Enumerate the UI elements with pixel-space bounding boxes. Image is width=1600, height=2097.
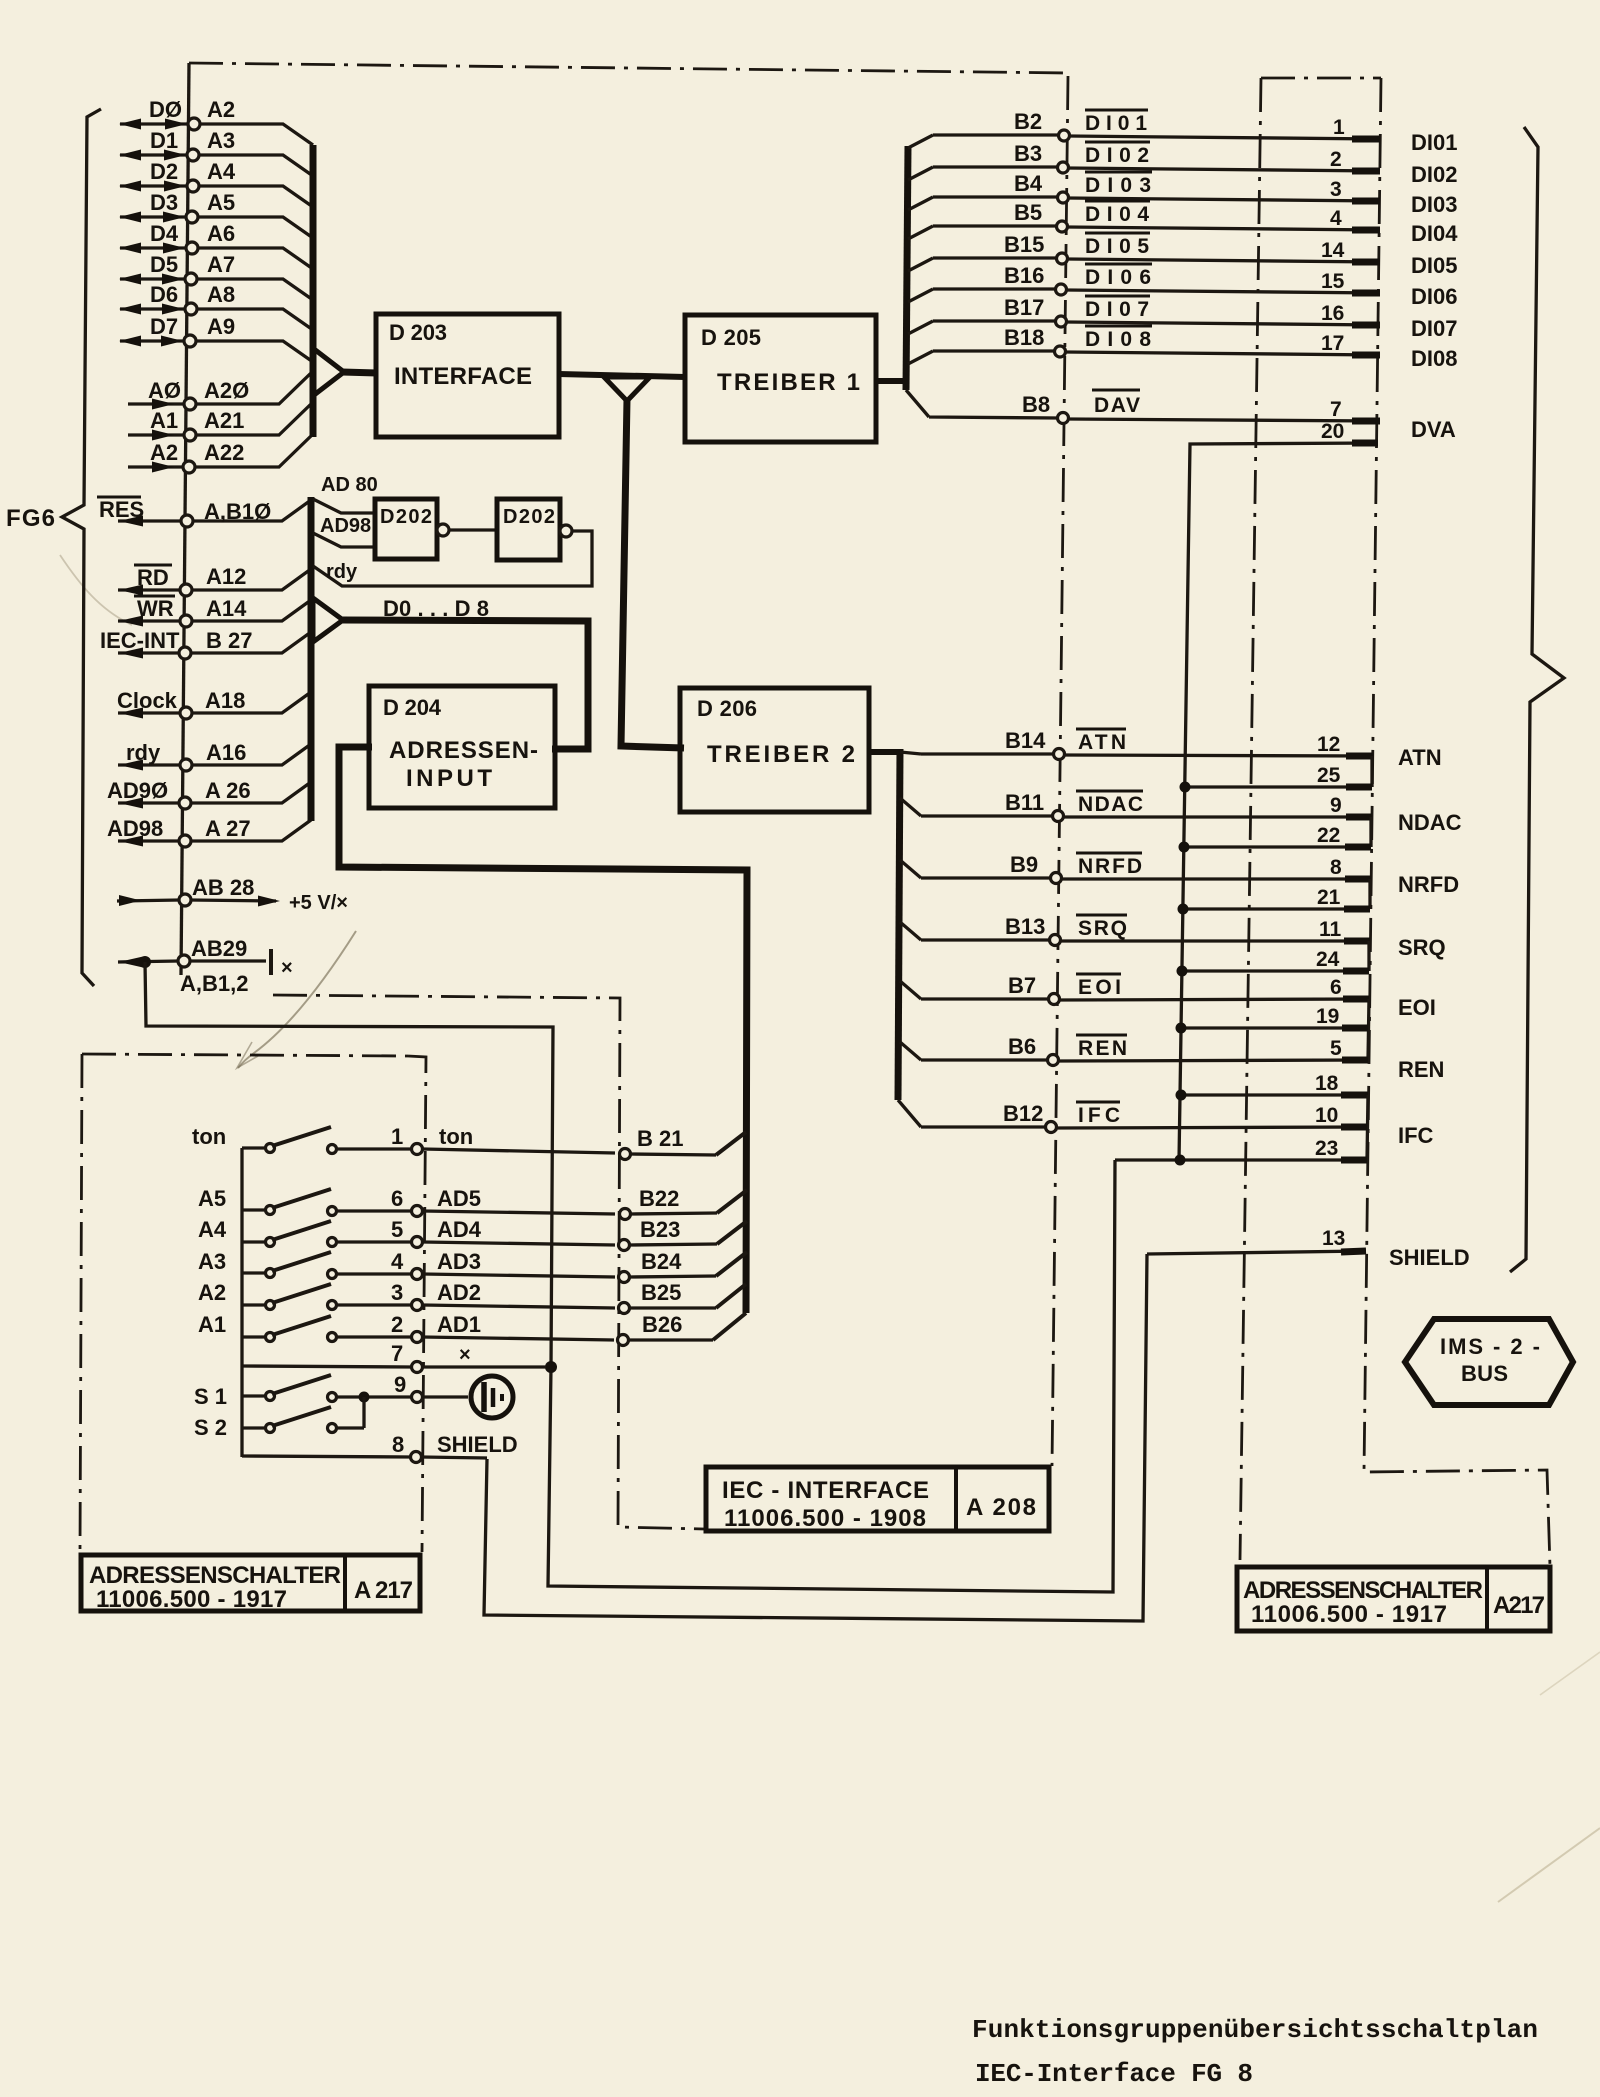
pin 11 stub <box>1344 938 1370 945</box>
switch S1 row <box>242 1396 468 1397</box>
connector IMS-2-BUS hexagon <box>1405 1319 1573 1405</box>
wire AB29 ground run <box>145 962 553 1367</box>
svg-text:B8: B8 <box>1022 392 1050 417</box>
pin B9 circle <box>1051 873 1062 884</box>
svg-text:DVA: DVA <box>1411 417 1456 442</box>
svg-text:S 1: S 1 <box>194 1384 227 1409</box>
boundary A208 top dash-dot line <box>189 63 1070 73</box>
svg-text:7: 7 <box>1330 398 1342 421</box>
wire AB29 row <box>118 961 266 962</box>
net IFC overbar <box>1076 1101 1120 1104</box>
pin 17 stub <box>1352 352 1380 359</box>
svg-text:IEC - INTERFACE: IEC - INTERFACE <box>722 1477 929 1504</box>
node RD overbar <box>134 564 172 567</box>
wire B23 row <box>629 1244 717 1245</box>
svg-text:TREIBER 2: TREIBER 2 <box>707 741 855 768</box>
switch A5 lever <box>272 1189 331 1208</box>
switch S1 lever <box>272 1375 331 1394</box>
arrow into interface <box>314 349 344 395</box>
pin B11 circle <box>1053 811 1064 822</box>
wire Clock row <box>118 692 311 713</box>
svg-text:A22: A22 <box>204 440 244 465</box>
bus data collector vertical <box>310 145 317 437</box>
pin 21 stub <box>1344 906 1370 913</box>
svg-text:25: 25 <box>1317 764 1341 787</box>
pin 22 stub <box>1345 844 1371 851</box>
svg-text:A,B1,2: A,B1,2 <box>180 971 248 996</box>
node WR overbar <box>134 595 175 598</box>
pin D4 circle A6 <box>186 242 198 254</box>
wire B4 DIO3 row <box>908 197 1380 210</box>
junction dot pin21 <box>1178 904 1189 915</box>
svg-text:11006.500 - 1908: 11006.500 - 1908 <box>724 1505 926 1532</box>
svg-text:A,B1Ø: A,B1Ø <box>204 499 271 524</box>
pin 12 stub <box>1346 753 1373 760</box>
bus D204 to switch block <box>339 747 747 1313</box>
wire B23 riser <box>717 1221 747 1244</box>
pin B4 circle <box>1058 192 1069 203</box>
svg-text:16: 16 <box>1321 302 1344 325</box>
svg-text:B2: B2 <box>1014 109 1042 134</box>
svg-text:A5: A5 <box>207 190 235 215</box>
svg-text:DI04: DI04 <box>1411 221 1458 246</box>
pin D5 arrows <box>119 274 184 285</box>
svg-text:D3: D3 <box>150 190 178 215</box>
pin B17 circle <box>1056 316 1067 327</box>
wire rdy feedback loop <box>313 531 592 586</box>
svg-text:×: × <box>459 1344 471 1366</box>
svg-text:AD1: AD1 <box>437 1312 481 1337</box>
svg-text:B13: B13 <box>1005 914 1045 939</box>
block D206 box <box>680 688 869 812</box>
pin 8 stub <box>1345 876 1371 883</box>
net REN overbar <box>1076 1034 1127 1037</box>
svg-text:D 203: D 203 <box>389 320 447 345</box>
net NDAC overbar <box>1076 790 1143 793</box>
pin AB28 circle <box>179 894 191 906</box>
svg-text:DI01: DI01 <box>1411 130 1457 155</box>
bus treiber2 collector <box>898 749 900 1100</box>
svg-text:SRQ: SRQ <box>1078 917 1127 940</box>
svg-text:B26: B26 <box>642 1312 682 1337</box>
pin 1 circle <box>412 1144 423 1155</box>
pin A2 arrow <box>152 462 174 473</box>
svg-text:B9: B9 <box>1010 852 1038 877</box>
pin D3 circle A5 <box>186 211 198 223</box>
svg-text:NDAC: NDAC <box>1398 810 1462 835</box>
svg-text:IFC: IFC <box>1398 1123 1434 1148</box>
switch A3 contacts <box>266 1269 275 1278</box>
wire D3 row <box>120 217 313 238</box>
pin D7 circle A9 <box>184 335 196 347</box>
pin D0 arrows <box>119 119 187 130</box>
wire B5 DIO4 row <box>908 226 1380 239</box>
junction dot x-row <box>545 1361 557 1373</box>
inverter D202 first box <box>375 499 437 559</box>
svg-text:AØ: AØ <box>148 378 181 403</box>
wire AD98 stub <box>313 533 376 547</box>
svg-text:B 27: B 27 <box>206 628 252 653</box>
svg-text:13: 13 <box>1322 1227 1345 1250</box>
switch ton lever <box>272 1127 331 1146</box>
wire pin8 SHIELD row <box>242 1456 487 1458</box>
boundary adressenschalter dash-dot left edge <box>80 1054 82 1551</box>
svg-text:NRFD: NRFD <box>1078 855 1142 878</box>
svg-text:DI05: DI05 <box>1411 253 1457 278</box>
svg-text:11006.500 - 1917: 11006.500 - 1917 <box>96 1586 287 1613</box>
wire pin9-22 stub vertical <box>1369 817 1372 847</box>
wire pin 22 row <box>1184 845 1371 848</box>
svg-text:A18: A18 <box>205 688 245 713</box>
svg-text:3: 3 <box>391 1280 403 1305</box>
svg-text:B16: B16 <box>1004 263 1044 288</box>
pin B6 circle <box>1048 1055 1059 1066</box>
svg-text:20: 20 <box>1321 420 1344 443</box>
pin RD circle A12 <box>180 584 192 596</box>
wire pin 18 row <box>1181 1093 1368 1096</box>
pin A0 arrow <box>152 399 174 410</box>
pin 25 stub <box>1346 784 1372 791</box>
wire pin 20 row <box>1179 443 1378 1161</box>
svg-text:B 21: B 21 <box>637 1126 683 1151</box>
svg-text:D1: D1 <box>150 128 178 153</box>
pin B5 circle <box>1057 221 1068 232</box>
svg-text:21: 21 <box>1317 886 1341 909</box>
inverter D202 first output bubble <box>437 524 449 536</box>
svg-text:AB 28: AB 28 <box>192 875 254 900</box>
wire AB28 row <box>117 900 276 901</box>
pin 6 circle <box>412 1206 423 1217</box>
pin D4 arrows <box>119 243 185 254</box>
wire B6 REN row <box>900 1042 1368 1061</box>
svg-text:ton: ton <box>439 1124 473 1149</box>
pin D5 circle A7 <box>185 273 197 285</box>
svg-text:B11: B11 <box>1005 790 1044 815</box>
net DIO2 overbar <box>1085 141 1150 144</box>
pin B7 circle <box>1049 994 1060 1005</box>
svg-text:A8: A8 <box>207 282 235 307</box>
switch ton contacts <box>266 1144 275 1153</box>
svg-text:×: × <box>281 957 293 979</box>
pin B23 circle <box>619 1240 630 1251</box>
wire pin12-25 stub vertical <box>1370 756 1373 787</box>
svg-text:ADRESSENSCHALTER: ADRESSENSCHALTER <box>1243 1577 1483 1604</box>
pin AB29 arrow <box>119 957 143 968</box>
node RES overbar <box>97 496 141 499</box>
svg-text:DI02: DI02 <box>1411 162 1457 187</box>
pin D2 circle A4 <box>187 180 199 192</box>
pin 15 stub <box>1352 290 1380 297</box>
svg-text:D2: D2 <box>150 159 178 184</box>
pin 2 stub <box>1352 168 1380 175</box>
bus treiber1 collector <box>906 146 908 390</box>
ground chassis symbol <box>471 1376 513 1418</box>
pin A0 circle A20 <box>184 398 196 410</box>
net DIO5 overbar <box>1085 232 1150 235</box>
pin 13 stub <box>1341 1251 1366 1252</box>
pin 20 stub <box>1352 440 1378 447</box>
svg-text:B25: B25 <box>641 1280 681 1305</box>
wire S1-S2 link <box>362 1397 365 1428</box>
switch A2 contacts <box>266 1301 275 1310</box>
svg-text:B17: B17 <box>1004 295 1044 320</box>
net DAV overbar <box>1092 389 1140 392</box>
svg-text:AD98: AD98 <box>107 816 163 841</box>
pin 8 circle <box>411 1452 422 1463</box>
wire B2 DIO1 row <box>908 135 1380 148</box>
pin 19 stub <box>1342 1025 1368 1032</box>
switch left bus <box>240 1148 243 1457</box>
svg-text:A6: A6 <box>207 221 235 246</box>
pin A1 arrow <box>152 430 174 441</box>
svg-text:NDAC: NDAC <box>1078 793 1143 816</box>
svg-text:2: 2 <box>1330 148 1342 171</box>
svg-text:B23: B23 <box>640 1217 680 1242</box>
svg-text:6: 6 <box>391 1186 403 1211</box>
boundary A208 bottom-left dash-dot edge <box>273 995 704 1529</box>
wire B7 EOI row <box>900 981 1369 1000</box>
pin 5 stub <box>1342 1057 1368 1064</box>
boundary IMS2 right dash-dot edge <box>1364 78 1550 1567</box>
svg-text:4: 4 <box>391 1249 404 1274</box>
wire B26 riser <box>713 1313 746 1340</box>
svg-text:9: 9 <box>394 1372 406 1397</box>
pin B22 circle <box>620 1209 631 1220</box>
svg-text:DI08: DI08 <box>1411 346 1457 371</box>
svg-text:A2Ø: A2Ø <box>204 378 249 403</box>
wire B26 row <box>628 1338 713 1341</box>
svg-text:REN: REN <box>1078 1037 1127 1060</box>
svg-text:REN: REN <box>1398 1057 1444 1082</box>
svg-text:A21: A21 <box>204 408 244 433</box>
wire arrow to D203 <box>342 372 377 373</box>
net EOI overbar <box>1076 973 1121 976</box>
wire A1 row <box>128 404 311 435</box>
svg-text:EOI: EOI <box>1398 995 1436 1020</box>
svg-text:AD4: AD4 <box>437 1217 482 1242</box>
wire IEC-INT row <box>118 632 311 653</box>
pin RES circle A.B10 <box>181 515 193 527</box>
svg-text:11: 11 <box>1319 918 1342 941</box>
svg-text:D0 . . . D 8: D0 . . . D 8 <box>383 596 489 621</box>
net DIO8 overbar <box>1085 325 1152 328</box>
boundary IMS2 top dash-dot edge <box>1261 77 1381 80</box>
pin 18 stub <box>1341 1092 1368 1099</box>
pin 4 circle <box>412 1269 423 1280</box>
svg-text:+5 V/×: +5 V/× <box>289 892 348 914</box>
pin RD arrow <box>119 585 143 596</box>
label box ADRESSENSCHALTER A217 right <box>1237 1567 1550 1631</box>
wire pin18-10-23 stub vertical <box>1367 1095 1368 1160</box>
wire B12 IFC row <box>898 1100 1367 1128</box>
pin B25 circle <box>619 1303 630 1314</box>
pin 9 stub <box>1346 814 1372 821</box>
wire pin6-19-5 stub vertical <box>1368 999 1369 1060</box>
wire B18 DIO8 row <box>908 351 1380 364</box>
svg-text:AD 80: AD 80 <box>321 474 378 496</box>
pin 16 stub <box>1352 322 1380 329</box>
junction dot pin18 <box>1176 1090 1187 1101</box>
pin B24 circle <box>619 1272 630 1283</box>
arrow into D0-D8 bus <box>313 598 343 642</box>
net DIO3 overbar <box>1085 171 1152 174</box>
boundary adressenschalter dash-dot top edge <box>82 1054 408 1056</box>
pin B14 circle <box>1054 749 1065 760</box>
svg-text:RD: RD <box>137 565 169 590</box>
net NRFD overbar <box>1076 852 1142 855</box>
svg-text:RES: RES <box>99 497 144 522</box>
wire shield return to switch <box>484 1254 1147 1621</box>
wire D1 row <box>120 155 313 176</box>
svg-text:EOI: EOI <box>1078 976 1121 999</box>
pin 9 circle <box>412 1392 423 1403</box>
pin 2 circle <box>412 1332 423 1343</box>
pin B18 circle <box>1055 346 1066 357</box>
wire pin 24 row <box>1183 969 1369 972</box>
wire B11 NDAC row <box>900 798 1372 817</box>
wire D2 row <box>120 186 313 207</box>
pin 4 stub <box>1352 227 1380 234</box>
pin WR arrow <box>119 616 143 627</box>
svg-text:FG6: FG6 <box>6 505 55 532</box>
wire AD80 stub <box>313 499 376 513</box>
wire D202 link <box>449 528 497 531</box>
svg-text:5: 5 <box>1330 1037 1342 1060</box>
wire pin 23 row <box>1115 1158 1367 1161</box>
wire AD90 row <box>118 782 311 803</box>
junction dot pin22 <box>1179 842 1190 853</box>
svg-text:17: 17 <box>1321 332 1344 355</box>
wire B17 DIO7 row <box>908 321 1380 334</box>
pin rdy circle A16 <box>180 759 192 771</box>
switch A3 lever <box>272 1252 331 1271</box>
svg-text:B14: B14 <box>1005 728 1046 753</box>
pin D3 arrows <box>119 212 185 223</box>
pin AD90 arrow <box>119 798 143 809</box>
svg-text:2: 2 <box>391 1312 403 1337</box>
svg-text:A12: A12 <box>206 564 246 589</box>
switch A2 lever <box>272 1284 331 1303</box>
wire A0 row <box>128 373 311 404</box>
wire B21 riser <box>716 1132 746 1155</box>
wire D206 output <box>869 749 900 755</box>
FG6 bracket <box>62 109 101 986</box>
bracket right brace <box>1510 127 1564 1272</box>
left bus column wire <box>181 63 189 975</box>
switch A2 row <box>242 1305 615 1308</box>
wire tap down to D206 <box>621 399 684 748</box>
svg-text:12: 12 <box>1317 733 1340 756</box>
net DIO6 overbar <box>1085 263 1152 266</box>
svg-text:11006.500 - 1917: 11006.500 - 1917 <box>1251 1601 1447 1628</box>
pin 6 stub <box>1343 996 1369 1003</box>
svg-text:SHIELD: SHIELD <box>437 1432 518 1457</box>
label box IEC-INTERFACE A208 <box>706 1467 1049 1532</box>
bus D0-D8 thick wire <box>341 620 588 749</box>
wire B3 DIO2 row <box>908 167 1380 180</box>
svg-text:A2: A2 <box>207 97 235 122</box>
svg-text:A9: A9 <box>207 314 235 339</box>
pin AD98 arrow <box>119 836 143 847</box>
boundary A208 right dash-dot edge <box>1052 76 1068 1466</box>
inverter D202 second output bubble <box>560 525 572 537</box>
svg-text:A3: A3 <box>198 1249 226 1274</box>
svg-text:A 208: A 208 <box>966 1494 1036 1521</box>
wire AD98 row <box>118 820 311 841</box>
wire B14 ATN row <box>900 752 1373 756</box>
pin A2 circle A22 <box>183 461 195 473</box>
net DIO4 overbar <box>1085 200 1150 203</box>
wire B15 DIO5 row <box>908 258 1380 271</box>
pin 23 stub <box>1341 1157 1367 1164</box>
wire B25 row <box>629 1306 716 1309</box>
svg-text:INTERFACE: INTERFACE <box>394 363 532 390</box>
wire B22 row <box>630 1213 717 1214</box>
switch S1 contacts <box>266 1392 275 1401</box>
svg-text:DI07: DI07 <box>1411 316 1457 341</box>
svg-text:A1: A1 <box>198 1312 226 1337</box>
junction dot AB29 <box>139 956 151 968</box>
pin A1 circle A21 <box>184 429 196 441</box>
block D203 box <box>376 314 559 437</box>
wire pin 25 row <box>1185 785 1372 788</box>
svg-text:ton: ton <box>192 1124 226 1149</box>
svg-text:AD2: AD2 <box>437 1280 481 1305</box>
pin WR circle A14 <box>180 615 192 627</box>
switch S2 lever <box>272 1407 331 1426</box>
wire D203 to D205 <box>559 374 685 377</box>
svg-text:Clock: Clock <box>117 688 178 713</box>
svg-text:B3: B3 <box>1014 141 1042 166</box>
pin B12 circle <box>1046 1122 1057 1133</box>
pin AD90 circle A26 <box>179 797 191 809</box>
pin 14 stub <box>1352 259 1380 266</box>
svg-text:1: 1 <box>391 1124 403 1149</box>
svg-text:S 2: S 2 <box>194 1415 227 1440</box>
wire B8 DAV row <box>906 390 1380 421</box>
svg-text:DI06: DI06 <box>1411 284 1457 309</box>
wire pin 19 row <box>1182 1026 1368 1029</box>
wire B22 riser <box>717 1190 747 1213</box>
label box ADRESSENSCHALTER A217 left <box>81 1555 420 1613</box>
pin B3 circle <box>1058 162 1069 173</box>
wire B13 SRQ row <box>900 922 1370 941</box>
junction dot S1 <box>359 1392 370 1403</box>
svg-text:7: 7 <box>391 1341 403 1366</box>
svg-text:A4: A4 <box>207 159 236 184</box>
svg-text:B18: B18 <box>1004 325 1044 350</box>
net ATN overbar <box>1076 728 1126 731</box>
tap triangle to treiber2 <box>604 377 650 401</box>
svg-text:D6: D6 <box>150 282 178 307</box>
pin D0 circle A2 <box>188 118 200 130</box>
svg-text:IEC-INT: IEC-INT <box>100 628 180 653</box>
switch A4 contacts <box>266 1238 275 1247</box>
svg-text:3: 3 <box>1330 178 1342 201</box>
switch A1 row <box>242 1337 614 1340</box>
svg-text:AD5: AD5 <box>437 1186 481 1211</box>
net DIO1 overbar <box>1085 109 1148 112</box>
svg-text:18: 18 <box>1315 1072 1339 1095</box>
svg-text:A2: A2 <box>150 440 178 465</box>
boundary adressenschalter dash-dot pin column <box>408 1056 426 1552</box>
pin 10 stub <box>1341 1124 1367 1131</box>
svg-text:14: 14 <box>1321 239 1345 262</box>
terminal x bar <box>269 949 273 975</box>
svg-text:INPUT: INPUT <box>406 765 492 792</box>
svg-text:AD3: AD3 <box>437 1249 481 1274</box>
block D205 box <box>685 315 876 442</box>
